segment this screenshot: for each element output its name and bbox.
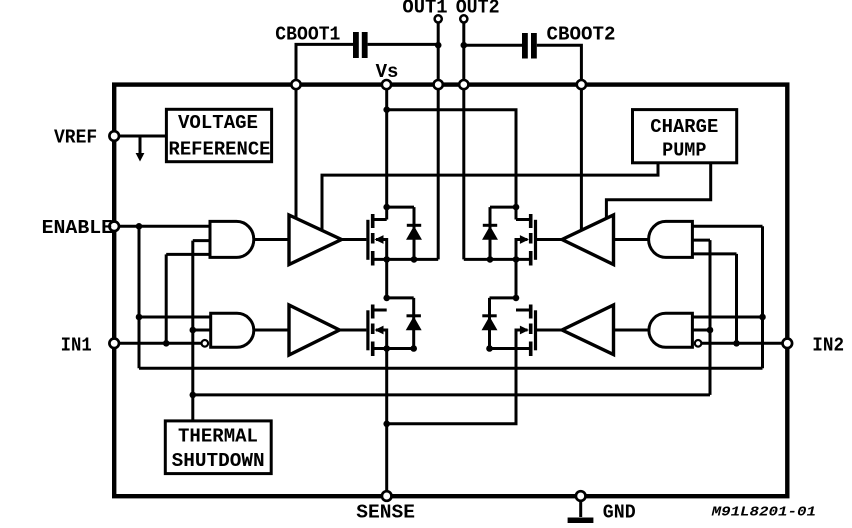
node D3 anode <box>487 256 494 263</box>
wire: IN2 vertical branch <box>735 254 738 343</box>
inverter bubble on A4 input <box>695 340 702 347</box>
AND gate A4 (right low side logic) <box>649 313 693 347</box>
node D4 anode <box>486 345 493 352</box>
svg-text:CBOOT1: CBOOT1 <box>275 24 340 46</box>
wire: buffer B3 output to Q3 gate <box>537 238 562 241</box>
wire: IN1 stub to AND A1 input 3 <box>166 253 210 256</box>
svg-text:VOLTAGE: VOLTAGE <box>178 112 258 134</box>
AND gate A2 (left low side logic) <box>211 313 254 347</box>
svg-text:GND: GND <box>603 502 636 524</box>
terminal ENABLE <box>109 222 119 232</box>
wire: thermal right vertical <box>709 240 712 395</box>
wire: IN1 terminal to AND A2 bubble <box>114 342 201 345</box>
node thermal to A4 <box>707 327 714 334</box>
wire: stub to AND A4 input 2 <box>692 329 710 332</box>
AND gate A3 (right high side logic) <box>649 221 693 257</box>
wire: Q4 source to sense node <box>387 349 516 424</box>
wire: CBOOT2 right lead <box>537 45 582 84</box>
op-amp buffer B1 (left high side driver) <box>289 215 342 265</box>
wire: buffer B2 output to Q2 gate <box>340 329 367 332</box>
wire: SENSE vertical <box>385 349 388 497</box>
svg-text:IN2: IN2 <box>812 335 844 357</box>
svg-text:SENSE: SENSE <box>356 502 415 524</box>
wire: CBOOT1 line down to driver <box>295 85 298 220</box>
wire: thermal stub to AND A1 input 2 <box>193 239 210 242</box>
wire: charge pump output 1 to left top driver <box>322 163 658 231</box>
wire: buffer B4 output to Q4 gate <box>537 329 562 332</box>
node ENABLE to A2 <box>136 314 143 321</box>
wire: ENABLE long horizontal to right side <box>139 367 763 370</box>
wire: OUT1 bridge node vertical <box>385 259 388 298</box>
node CBOOT1/OUT1 <box>435 42 442 49</box>
node sense junction <box>383 421 390 428</box>
svg-text:SHUTDOWN: SHUTDOWN <box>172 450 265 472</box>
block: VOLTAGE REFERENCE <box>166 109 271 161</box>
body diode D3 of Q3 <box>483 207 516 259</box>
node CBOOT2 on bus <box>577 80 586 89</box>
node CBOOT2/OUT2 <box>461 42 468 49</box>
wire: stub to AND A3 input 1 <box>692 225 762 228</box>
wire: AND A3 output to buffer B3 <box>614 238 650 241</box>
wire: CBOOT2 left lead from OUT2 <box>464 44 522 47</box>
terminal IN2 <box>783 339 793 349</box>
wire: OUT2 bridge node vertical <box>515 259 518 298</box>
node Vs branch <box>383 106 390 113</box>
node thermal to A2 <box>190 327 197 334</box>
wire: CBOOT1 right lead to OUT1 <box>368 43 439 46</box>
wire: OUT2 vertical lead <box>462 23 465 260</box>
node Vs on bus <box>382 80 391 89</box>
node ENABLE branch <box>136 223 143 230</box>
svg-text:IN1: IN1 <box>61 335 92 357</box>
Q1 body arrow <box>375 235 384 244</box>
wire: IN2 stub to AND A3 input 3 <box>692 252 736 255</box>
op-amp buffer B2 (left low side driver) <box>289 305 340 355</box>
node IN1 branch <box>163 340 170 347</box>
node Q2 source <box>383 345 390 352</box>
node OUT1 on bus <box>434 80 443 89</box>
wire: IN2 terminal to AND A4 bubble <box>701 342 787 345</box>
wire: ENABLE vertical branch <box>138 226 141 368</box>
AND gate A1 (left high side logic) <box>210 221 254 257</box>
wire: thermal long horizontal to right side <box>193 393 710 396</box>
transistor Q3 (high side right DMOS) <box>464 214 536 266</box>
transistor Q1 (high side left DMOS) <box>368 214 438 266</box>
node CBOOT1 on bus <box>291 80 300 89</box>
node ENABLE to A4 <box>759 314 766 321</box>
svg-text:OUT1: OUT1 <box>402 0 447 19</box>
outer IC boundary box <box>114 85 787 497</box>
op-amp buffer B4 (right low side driver) <box>562 305 614 355</box>
block: CHARGE PUMP <box>633 110 737 163</box>
wire: AND A2 output to buffer B2 <box>254 329 290 332</box>
arrow head on VREF output <box>136 153 145 162</box>
node IN2 branch <box>733 340 740 347</box>
svg-text:CBOOT2: CBOOT2 <box>547 24 616 46</box>
wire: thermal stub to AND A2 input 2 <box>193 329 211 332</box>
node Q3 source <box>513 256 520 263</box>
op-amp buffer B3 (right high side driver) <box>562 215 614 265</box>
body diode D1 of Q1 <box>387 207 422 259</box>
wire: thermal shutdown vertical <box>191 241 194 421</box>
capacitor CBOOT1 <box>353 32 368 58</box>
wire: ENABLE to AND A1 input 1 <box>114 225 210 228</box>
svg-text:OUT2: OUT2 <box>456 0 500 19</box>
terminal IN1 <box>109 339 119 349</box>
terminal GND <box>576 491 586 501</box>
node Q2 drain <box>383 295 390 302</box>
wire: stub to AND A3 input 2 <box>692 239 710 242</box>
node OUT2 on bus <box>459 80 468 89</box>
wire: VREF terminal to voltage reference box <box>114 135 166 138</box>
Q3 body arrow <box>520 235 529 244</box>
open junction circles on Vs bus <box>291 80 586 89</box>
node D2 anode <box>410 345 417 352</box>
body diode D2 of Q2 <box>387 298 421 349</box>
terminal VREF <box>109 131 119 141</box>
wire: AND A4 output to buffer B4 <box>614 329 650 332</box>
terminal OUT2 <box>460 15 467 22</box>
wire: CBOOT2 line down to driver <box>580 85 583 231</box>
ground symbol <box>579 501 582 517</box>
capacitor CBOOT2 <box>522 33 537 59</box>
block: THERMAL SHUTDOWN <box>165 421 271 474</box>
wire: OUT1 vertical lead <box>437 23 440 260</box>
terminal OUT1 <box>435 15 442 22</box>
svg-text:THERMAL: THERMAL <box>178 425 258 447</box>
wire: Vs vertical to Q1 drain <box>385 85 388 220</box>
node Q3 drain <box>513 204 520 211</box>
node Q1 drain <box>383 204 390 211</box>
node Q4 drain <box>513 295 520 302</box>
wire: ENABLE branch to AND A2 input 1 <box>139 316 211 319</box>
svg-text:ENABLE: ENABLE <box>42 217 114 239</box>
wire: ENABLE right vertical <box>761 226 764 368</box>
node thermal long line <box>190 392 197 399</box>
transistor Q2 (low side left DMOS) <box>368 305 414 357</box>
svg-text:M91L8201-01: M91L8201-01 <box>710 506 816 521</box>
svg-text:VREF: VREF <box>54 127 97 149</box>
wire: VREF output arrow stem <box>139 136 142 155</box>
Q2 body arrow <box>375 326 384 335</box>
node Q1 source <box>383 256 390 263</box>
svg-text:Vs: Vs <box>376 61 399 83</box>
wire: CBOOT1 left lead <box>296 44 353 86</box>
body diode D4 of Q4 <box>482 298 516 349</box>
wire: AND A1 output to buffer B1 <box>254 238 290 241</box>
svg-text:CHARGE: CHARGE <box>650 116 718 138</box>
svg-text:REFERENCE: REFERENCE <box>169 139 271 161</box>
node D1 anode <box>411 256 418 263</box>
wire: stub to AND A4 input 1 <box>692 316 762 319</box>
Q4 body arrow <box>520 326 529 335</box>
wire: charge pump output 2 to right top driver <box>606 163 710 219</box>
wire: Vs branch to Q3 drain <box>387 110 516 220</box>
transistor Q4 (low side right DMOS) <box>490 305 536 357</box>
wire: buffer B1 output to Q1 gate <box>342 238 367 241</box>
wire: IN1 vertical branch <box>165 254 168 343</box>
terminal SENSE <box>382 491 392 501</box>
svg-text:PUMP: PUMP <box>662 139 706 161</box>
inverter bubble on A2 input <box>202 340 209 347</box>
